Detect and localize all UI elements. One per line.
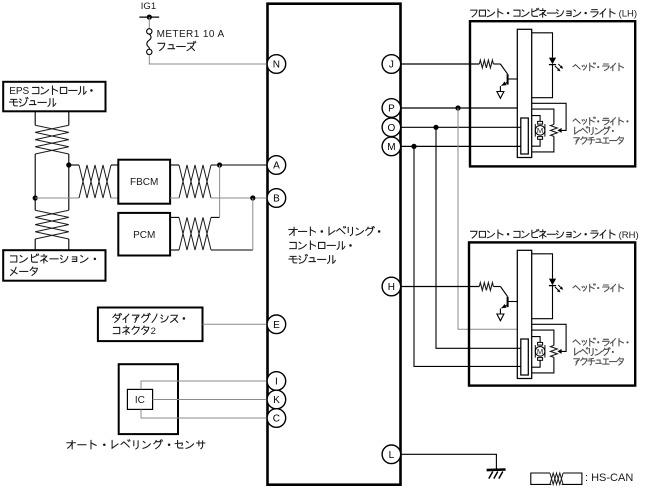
ground G1 (body ground) [487, 468, 506, 471]
terminal L [382, 445, 401, 464]
wire M to LH light [401, 145, 521, 147]
svg-text:: HS-CAN: : HS-CAN [585, 472, 633, 484]
label: headlight leveling actuator (RH) [573, 338, 629, 346]
svg-text:M: M [537, 347, 543, 356]
svg-text:K: K [273, 395, 280, 406]
wire O drop to RH [436, 127, 521, 348]
wire left pair lower [34, 198, 36, 210]
wire PCM coil to riser bottom [170, 249, 179, 251]
junction B-branch [250, 195, 255, 200]
svg-text:M: M [387, 142, 395, 153]
wire junction to FBCM coil (CAN-L) [35, 197, 79, 199]
label: auto-leveling control module [289, 227, 381, 236]
wire P to LH light [401, 107, 518, 109]
svg-text:H: H [388, 282, 395, 293]
wire headlight return [532, 286, 553, 319]
label: headlight (RH) [573, 284, 623, 292]
svg-text:N: N [273, 60, 280, 71]
wire EPS pair left upper [34, 112, 36, 126]
legend: HS-CAN twisted pair symbol [531, 473, 551, 484]
headlight lamp (LED symbol) [549, 279, 556, 286]
wire coil to FBCM top [111, 164, 118, 166]
terminal A [267, 156, 286, 175]
module: auto-leveling sensor box [119, 364, 178, 434]
svg-text:A: A [273, 161, 280, 172]
module: EPS control module box [3, 82, 105, 112]
terminal H [382, 277, 401, 296]
wire EPS pair right mid [68, 154, 70, 165]
wire EPS pair left mid [34, 154, 36, 198]
twisted pair FBCM right [179, 165, 211, 198]
module: front combination light RH box [469, 242, 635, 385]
wire to actuator wiper [532, 324, 566, 351]
svg-text:FBCM: FBCM [130, 177, 158, 188]
wire IC to C [141, 409, 268, 418]
svg-text:E: E [273, 320, 280, 331]
headlight lamp (LED symbol) [549, 58, 556, 65]
wire right pair to meter [68, 165, 70, 210]
wire fuse to terminal N [149, 55, 267, 64]
wire L to ground [401, 454, 497, 468]
junction on IG1 [147, 15, 152, 20]
title: front combination light (LH) [471, 8, 615, 17]
module: diagnosis connector 2 box [98, 308, 203, 342]
wire M drop to RH [414, 146, 521, 366]
junction O branch [433, 125, 438, 130]
wire headlight return [532, 65, 553, 98]
junction CAN-L [33, 195, 38, 200]
transistor Q (LH) [493, 63, 500, 65]
svg-text:IC: IC [135, 395, 145, 406]
wire to actuator wiper [532, 103, 566, 130]
transistor Q (RH) [493, 286, 500, 288]
terminal C [267, 409, 286, 428]
position sensor resistor (potentiometer) [551, 124, 558, 136]
label: fuse (katakana) [158, 41, 196, 50]
connector strip [517, 29, 531, 157]
wire junction to FBCM coil (CAN-H) [69, 164, 79, 166]
twisted pair (CAN) section 1 [35, 125, 69, 154]
module PCM box [118, 213, 170, 256]
ground arrow (emitter open triangle) [499, 86, 501, 91]
terminal M [382, 137, 401, 156]
wire O to LH light [401, 126, 521, 128]
wire PCM coil to riser top [170, 216, 179, 218]
label: combination meter [10, 254, 96, 263]
wire P drop to RH [458, 108, 517, 329]
terminal J [382, 55, 401, 74]
module U1: auto-leveling control module box [268, 4, 401, 485]
terminal I [267, 372, 286, 391]
wire to actuator motor [532, 116, 540, 122]
title: front combination light (RH) [471, 230, 615, 239]
ground arrow (emitter open triangle) [499, 309, 501, 314]
actuator connector [521, 339, 529, 375]
label: headlight leveling actuator (LH) [573, 117, 629, 125]
wire to headlight lamp [532, 33, 553, 58]
svg-text:IG1: IG1 [141, 1, 156, 12]
svg-text:C: C [273, 414, 280, 425]
svg-text:EPS: EPS [9, 86, 29, 97]
wire H to RH light [401, 286, 480, 288]
label: diagnosis connector 2 [113, 314, 185, 323]
wire J to LH light [401, 63, 480, 65]
terminal K [267, 390, 286, 409]
resistor R (headlight drive) LH [479, 60, 493, 68]
wire IC to K [153, 399, 268, 401]
actuator motor M [538, 342, 543, 345]
svg-text:O: O [388, 123, 396, 134]
svg-text:PCM: PCM [133, 230, 155, 241]
module: front combination light LH box [470, 21, 635, 166]
wire riser PCM to A junction [219, 165, 221, 217]
fuse F1 METER1 10A [147, 29, 152, 34]
label: headlight (LH) [573, 63, 623, 71]
wire coil to FBCM bottom [111, 197, 118, 199]
svg-text:M: M [537, 126, 543, 135]
node IG1 tick [139, 16, 159, 18]
wire to position sensor resistor [532, 330, 554, 345]
svg-text:J: J [389, 60, 394, 71]
wire to actuator motor [532, 337, 540, 343]
svg-text:P: P [388, 104, 395, 115]
actuator motor M [538, 121, 543, 124]
terminal P [382, 99, 401, 118]
wire riser PCM to B junction [252, 198, 254, 250]
twisted pair PCM right [179, 217, 211, 250]
actuator connector [521, 118, 529, 154]
svg-text:(LH): (LH) [619, 9, 637, 20]
wire EPS pair right upper [68, 112, 70, 126]
twisted pair (CAN) section 2 [35, 210, 69, 239]
svg-text:L: L [389, 450, 395, 461]
terminal N [267, 55, 286, 74]
module: combination meter box [3, 250, 105, 281]
svg-text:B: B [273, 194, 280, 205]
svg-text:2: 2 [151, 326, 156, 337]
wire IG1 to fuse [148, 17, 150, 29]
wire to position sensor resistor [532, 109, 554, 124]
junction M branch [411, 144, 416, 149]
wire IC to I [141, 381, 268, 389]
wire pair into meter R [68, 239, 70, 250]
wire FBCM coil to A [170, 164, 179, 166]
junction A-branch [217, 162, 222, 167]
connector strip [517, 250, 531, 378]
terminal O [382, 118, 401, 137]
wire FBCM coil to B [170, 197, 179, 199]
junction P branch [455, 105, 460, 110]
svg-text:(RH): (RH) [619, 230, 639, 241]
module FBCM box [118, 160, 170, 204]
terminal B [267, 189, 286, 208]
wire to headlight lamp [532, 254, 553, 279]
twisted pair FBCM left [79, 165, 111, 198]
svg-text:I: I [275, 377, 278, 388]
wire pair into meter L [34, 239, 36, 250]
component IC box [127, 389, 152, 409]
wire diagnosis to E [203, 323, 268, 325]
svg-text:METER1 10 A: METER1 10 A [157, 29, 225, 40]
label: auto-leveling sensor [67, 440, 205, 449]
terminal E [267, 315, 286, 334]
junction CAN-H [66, 162, 71, 167]
position sensor resistor (potentiometer) [551, 345, 558, 357]
resistor R (headlight drive) RH [479, 283, 493, 291]
